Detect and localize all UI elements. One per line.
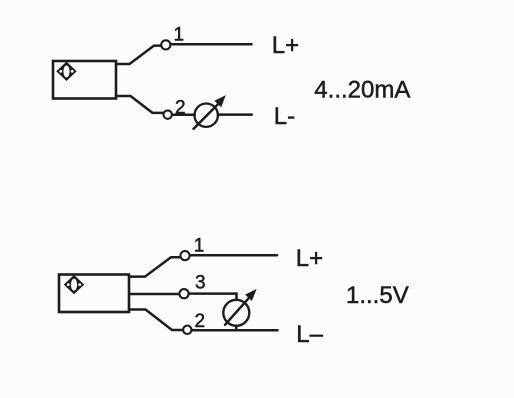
wire: meter M2 bottom junction to L- wire xyxy=(235,326,238,330)
svg-text:2: 2 xyxy=(195,311,206,332)
terminal 1 (top) xyxy=(161,40,170,49)
terminal 1 (bottom) xyxy=(180,251,189,260)
sensor S2 (bottom diagram body) xyxy=(59,275,129,313)
wire: terminal 2 to L- xyxy=(192,329,278,332)
svg-text:3: 3 xyxy=(195,273,206,294)
wire: terminal 2 to meter M1 xyxy=(172,114,195,117)
wire: S2 pin to terminal 1 xyxy=(129,257,180,276)
meter M2 (voltmeter circle) xyxy=(223,300,249,326)
terminal 3 xyxy=(179,289,188,298)
wire: terminal 1 to L+ xyxy=(190,254,277,257)
svg-text:4...20mA: 4...20mA xyxy=(314,77,410,104)
svg-text:1...5V: 1...5V xyxy=(346,282,409,309)
wire: S2 pin to terminal 2 xyxy=(129,310,183,331)
svg-text:1: 1 xyxy=(194,235,205,256)
wire: S1 pin to terminal 1 xyxy=(116,46,161,64)
svg-text:L-: L- xyxy=(274,103,295,130)
terminal 2 (bottom) xyxy=(183,326,191,334)
wire: terminal 3 to meter M2 xyxy=(189,294,237,300)
terminal 2 (top) xyxy=(164,110,172,118)
wire: meter M1 to L- xyxy=(218,113,252,116)
svg-text:1: 1 xyxy=(174,24,185,45)
meter M1 adjustment arrow xyxy=(194,103,219,129)
wire: S2 pin to terminal 3 xyxy=(129,293,179,296)
meter M2 adjustment arrow xyxy=(225,297,250,325)
svg-text:L–: L– xyxy=(296,321,323,348)
sensor symbol (diamond with slot) S2 xyxy=(64,275,84,294)
sensor symbol (diamond with slot) S1 xyxy=(56,62,76,81)
meter M1 (ammeter circle) xyxy=(195,104,218,127)
wire: terminal 1 to L+ xyxy=(171,43,252,46)
svg-text:L+: L+ xyxy=(296,245,323,272)
svg-text:L+: L+ xyxy=(272,32,299,59)
wire: S1 pin to terminal 2 xyxy=(116,96,163,113)
sensor S1 (top diagram body) xyxy=(53,61,116,99)
